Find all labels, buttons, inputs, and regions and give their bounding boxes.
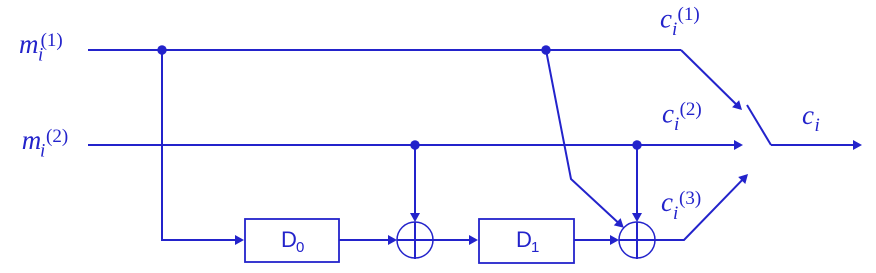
wire: m_i(1) diagonal to commutator bbox=[681, 50, 737, 105]
XOR gate X1 circle bbox=[397, 222, 433, 258]
arrowhead: into D1 bbox=[469, 235, 478, 245]
svg-text:0: 0 bbox=[296, 239, 304, 256]
svg-text:c: c bbox=[662, 98, 674, 128]
node J1 junction dot bbox=[157, 45, 166, 54]
arrowhead: into XOR X1 top bbox=[410, 213, 420, 222]
arrowhead: into XOR X1 left bbox=[388, 235, 397, 245]
register box D0 bbox=[245, 219, 339, 262]
wire: vertical from node J3 into XOR X1 bbox=[414, 145, 416, 215]
svg-text:c: c bbox=[661, 187, 673, 217]
arrowhead: m_i(2) line at commutator bbox=[734, 140, 743, 150]
wire: m_i(1) input horizontal line bbox=[88, 49, 681, 51]
svg-text:i: i bbox=[815, 115, 820, 136]
svg-text:i: i bbox=[674, 114, 679, 135]
node J3 junction dot bbox=[410, 140, 419, 149]
XOR gate X1 cross bbox=[397, 222, 433, 259]
wire: vertical from node J4 into XOR X2 bbox=[636, 145, 638, 215]
svg-text:D: D bbox=[516, 227, 532, 252]
svg-text:i: i bbox=[40, 141, 45, 162]
svg-text:(1): (1) bbox=[678, 4, 700, 25]
register box D1 bbox=[479, 219, 574, 263]
label D0 bbox=[281, 227, 304, 256]
wire: c_i output line bbox=[771, 144, 855, 146]
arrowhead: diagonal into XOR X2 upper-left bbox=[614, 218, 624, 228]
svg-text:m: m bbox=[19, 29, 39, 59]
XOR gate X2 circle bbox=[619, 222, 655, 258]
node J4 junction dot bbox=[632, 140, 641, 149]
node J2 junction dot bbox=[541, 45, 550, 54]
arrowhead: XOR X2 output at commutator bbox=[738, 174, 748, 184]
svg-text:D: D bbox=[281, 227, 297, 252]
arrowhead: into XOR X2 top bbox=[632, 213, 642, 222]
commutator switch arm bbox=[747, 105, 771, 145]
XOR gate X2 cross bbox=[619, 222, 655, 259]
svg-text:m: m bbox=[22, 125, 42, 155]
arrowhead: c_i output bbox=[853, 140, 862, 150]
label m_i(1) bbox=[19, 29, 63, 66]
label c_i(2) bbox=[662, 98, 702, 135]
wire: m_i(2) input horizontal line bbox=[88, 144, 736, 146]
svg-text:(1): (1) bbox=[41, 30, 63, 51]
svg-text:i: i bbox=[673, 203, 678, 224]
svg-text:c: c bbox=[802, 100, 814, 130]
wire: elbow from node J1 down to D0 bbox=[162, 50, 237, 240]
label c_i output bbox=[802, 100, 820, 136]
svg-text:c: c bbox=[660, 4, 672, 34]
svg-text:(2): (2) bbox=[680, 99, 702, 120]
arrowhead: m_i(1) diagonal at commutator bbox=[732, 100, 742, 110]
wire: diagonal from node J2 down to XOR X2 bbox=[546, 50, 619, 223]
label m_i(2) bbox=[22, 125, 68, 162]
label c_i(1) bbox=[660, 4, 700, 41]
wire: D1 output to XOR X2 bbox=[574, 239, 612, 241]
wire: XOR X1 output to D1 bbox=[433, 239, 471, 241]
svg-text:i: i bbox=[672, 19, 677, 40]
arrowhead: into D0 bbox=[235, 235, 244, 245]
svg-text:(3): (3) bbox=[679, 188, 701, 209]
svg-text:1: 1 bbox=[531, 239, 539, 256]
label c_i(3) bbox=[661, 187, 701, 224]
svg-text:(2): (2) bbox=[46, 126, 68, 147]
arrowhead: into XOR X2 left bbox=[610, 235, 619, 245]
wire: D0 output to XOR X1 bbox=[339, 239, 390, 241]
wire: XOR X2 output elbow diagonal to commutator bbox=[655, 179, 743, 240]
label D1 bbox=[516, 227, 539, 256]
